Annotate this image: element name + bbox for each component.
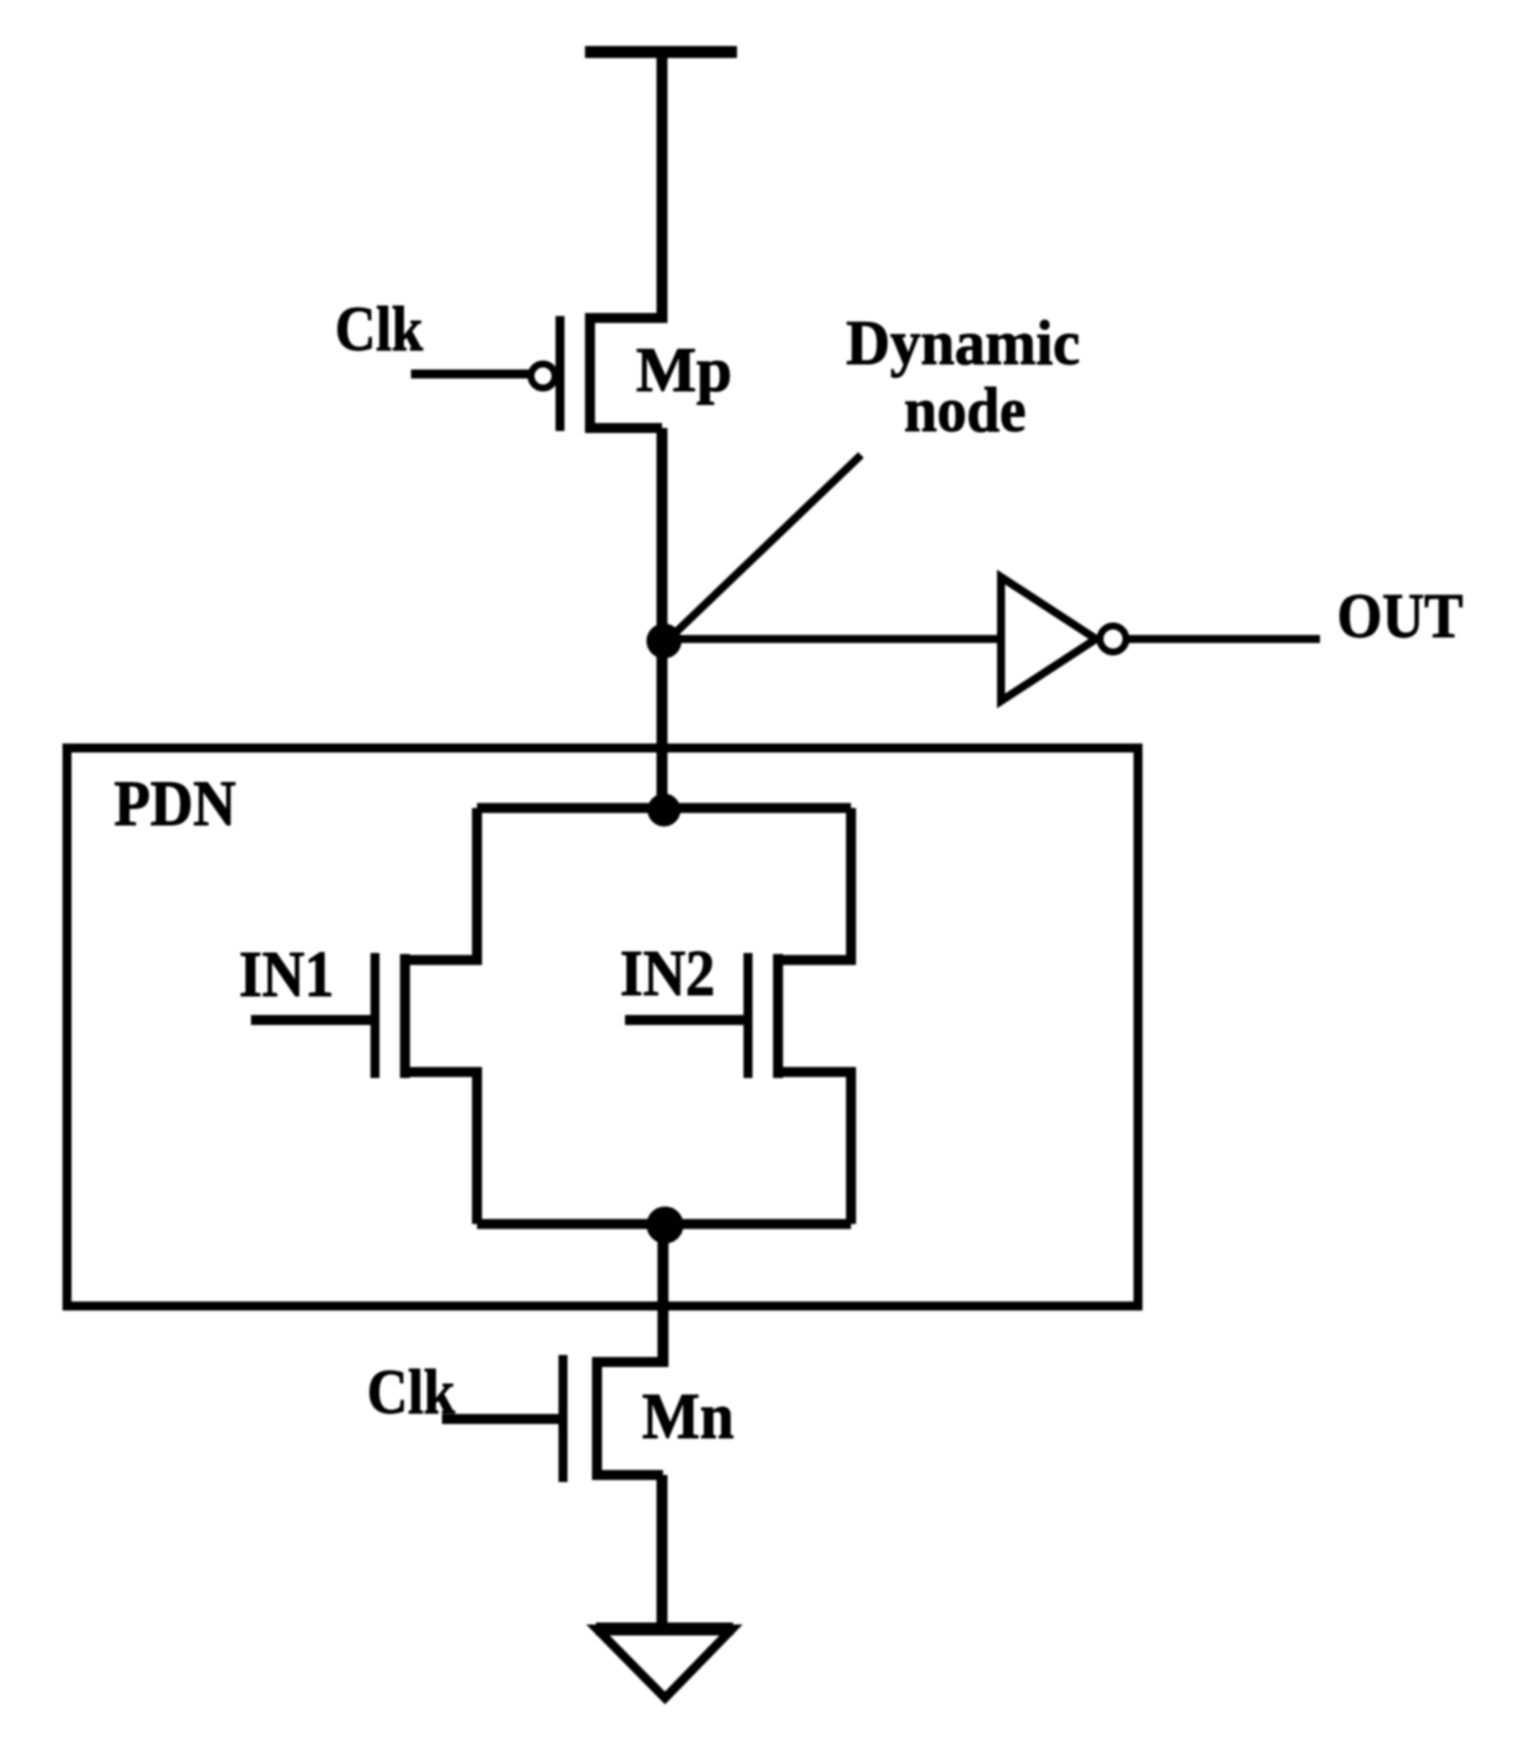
transistor Mn (NMOS) body [597, 1362, 663, 1475]
wire inverter to OUT [1127, 635, 1320, 643]
leader line to dynamic node [672, 455, 861, 636]
wire IN2 gate lead [625, 1015, 744, 1025]
svg-text:Mn: Mn [642, 1380, 734, 1453]
power rail VDD [585, 46, 737, 58]
svg-text:Clk: Clk [335, 293, 423, 364]
wire Clk to Mp gate [411, 370, 531, 379]
wire Clk to Mn gate [442, 1414, 559, 1424]
transistor Mp gate bar [556, 316, 565, 431]
wire VDD to Mp source [657, 52, 668, 323]
inverter U1 triangle [1001, 577, 1096, 701]
svg-text:Dynamic: Dynamic [846, 307, 1080, 378]
svg-text:IN2: IN2 [620, 937, 715, 1010]
wire left branch source [405, 1072, 477, 1224]
wire parallel branch bottom bus [477, 1219, 851, 1229]
transistor IN2 gate bar [744, 953, 753, 1078]
svg-text:OUT: OUT [1337, 580, 1463, 651]
wire PDN bottom to Mn drain [658, 1225, 669, 1367]
wire dynamic node into PDN [657, 641, 668, 820]
transistor Mn channel [592, 1357, 602, 1480]
wire right branch drain [778, 808, 851, 960]
wire parallel branch top bus [477, 803, 851, 813]
transistor Mp (PMOS) body [590, 318, 662, 428]
inverter U1 output bubble [1100, 626, 1126, 652]
svg-text:node: node [904, 374, 1026, 445]
node PDN bottom junction dot [647, 1207, 683, 1243]
wire Mn source to ground [657, 1475, 668, 1630]
svg-text:Clk: Clk [367, 1356, 455, 1427]
transistor IN2 (NMOS) channel [773, 954, 783, 1078]
svg-text:PDN: PDN [114, 768, 236, 840]
transistor Mn gate bar [559, 1355, 568, 1482]
wire left branch drain [405, 808, 477, 960]
transistor IN1 gate bar [371, 953, 380, 1078]
node PDN top junction dot [648, 794, 680, 826]
wire IN1 gate lead [251, 1015, 371, 1025]
transistor Mp gate bubble (PMOS) [531, 364, 555, 388]
transistor IN1 (NMOS) channel [400, 954, 410, 1078]
ground symbol [597, 1629, 732, 1698]
svg-text:Mp: Mp [636, 334, 732, 405]
wire Mp drain to dynamic node [657, 428, 668, 660]
PDN box [67, 748, 1138, 1306]
wire right branch source [778, 1072, 851, 1224]
node dynamic node (junction dot) [647, 624, 681, 658]
svg-text:IN1: IN1 [239, 938, 334, 1011]
wire dynamic node to inverter input [664, 635, 1001, 643]
